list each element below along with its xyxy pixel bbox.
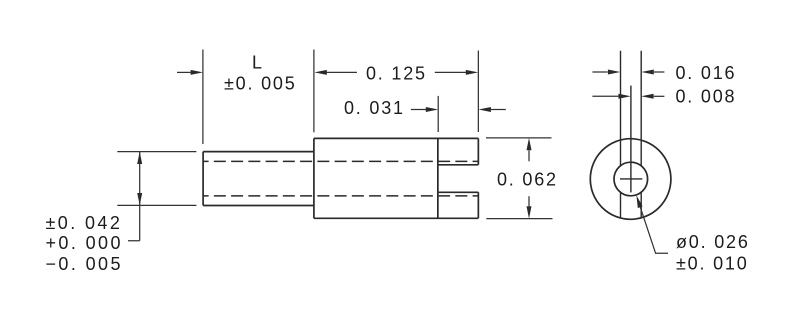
svg-text:±0. 010: ±0. 010 [676, 253, 749, 273]
svg-text:L: L [252, 53, 264, 73]
svg-text:0. 062: 0. 062 [497, 170, 558, 190]
svg-text:+0. 000: +0. 000 [46, 233, 123, 253]
svg-text:0. 031: 0. 031 [344, 98, 405, 118]
svg-text:ø0. 026: ø0. 026 [676, 232, 750, 252]
svg-text:0. 008: 0. 008 [676, 87, 737, 107]
svg-text:0. 125: 0. 125 [366, 63, 427, 83]
svg-text:±0. 042: ±0. 042 [46, 213, 123, 233]
svg-text:±0. 005: ±0. 005 [224, 73, 297, 93]
svg-text:−0. 005: −0. 005 [46, 254, 123, 274]
svg-text:0. 016: 0. 016 [676, 63, 737, 83]
